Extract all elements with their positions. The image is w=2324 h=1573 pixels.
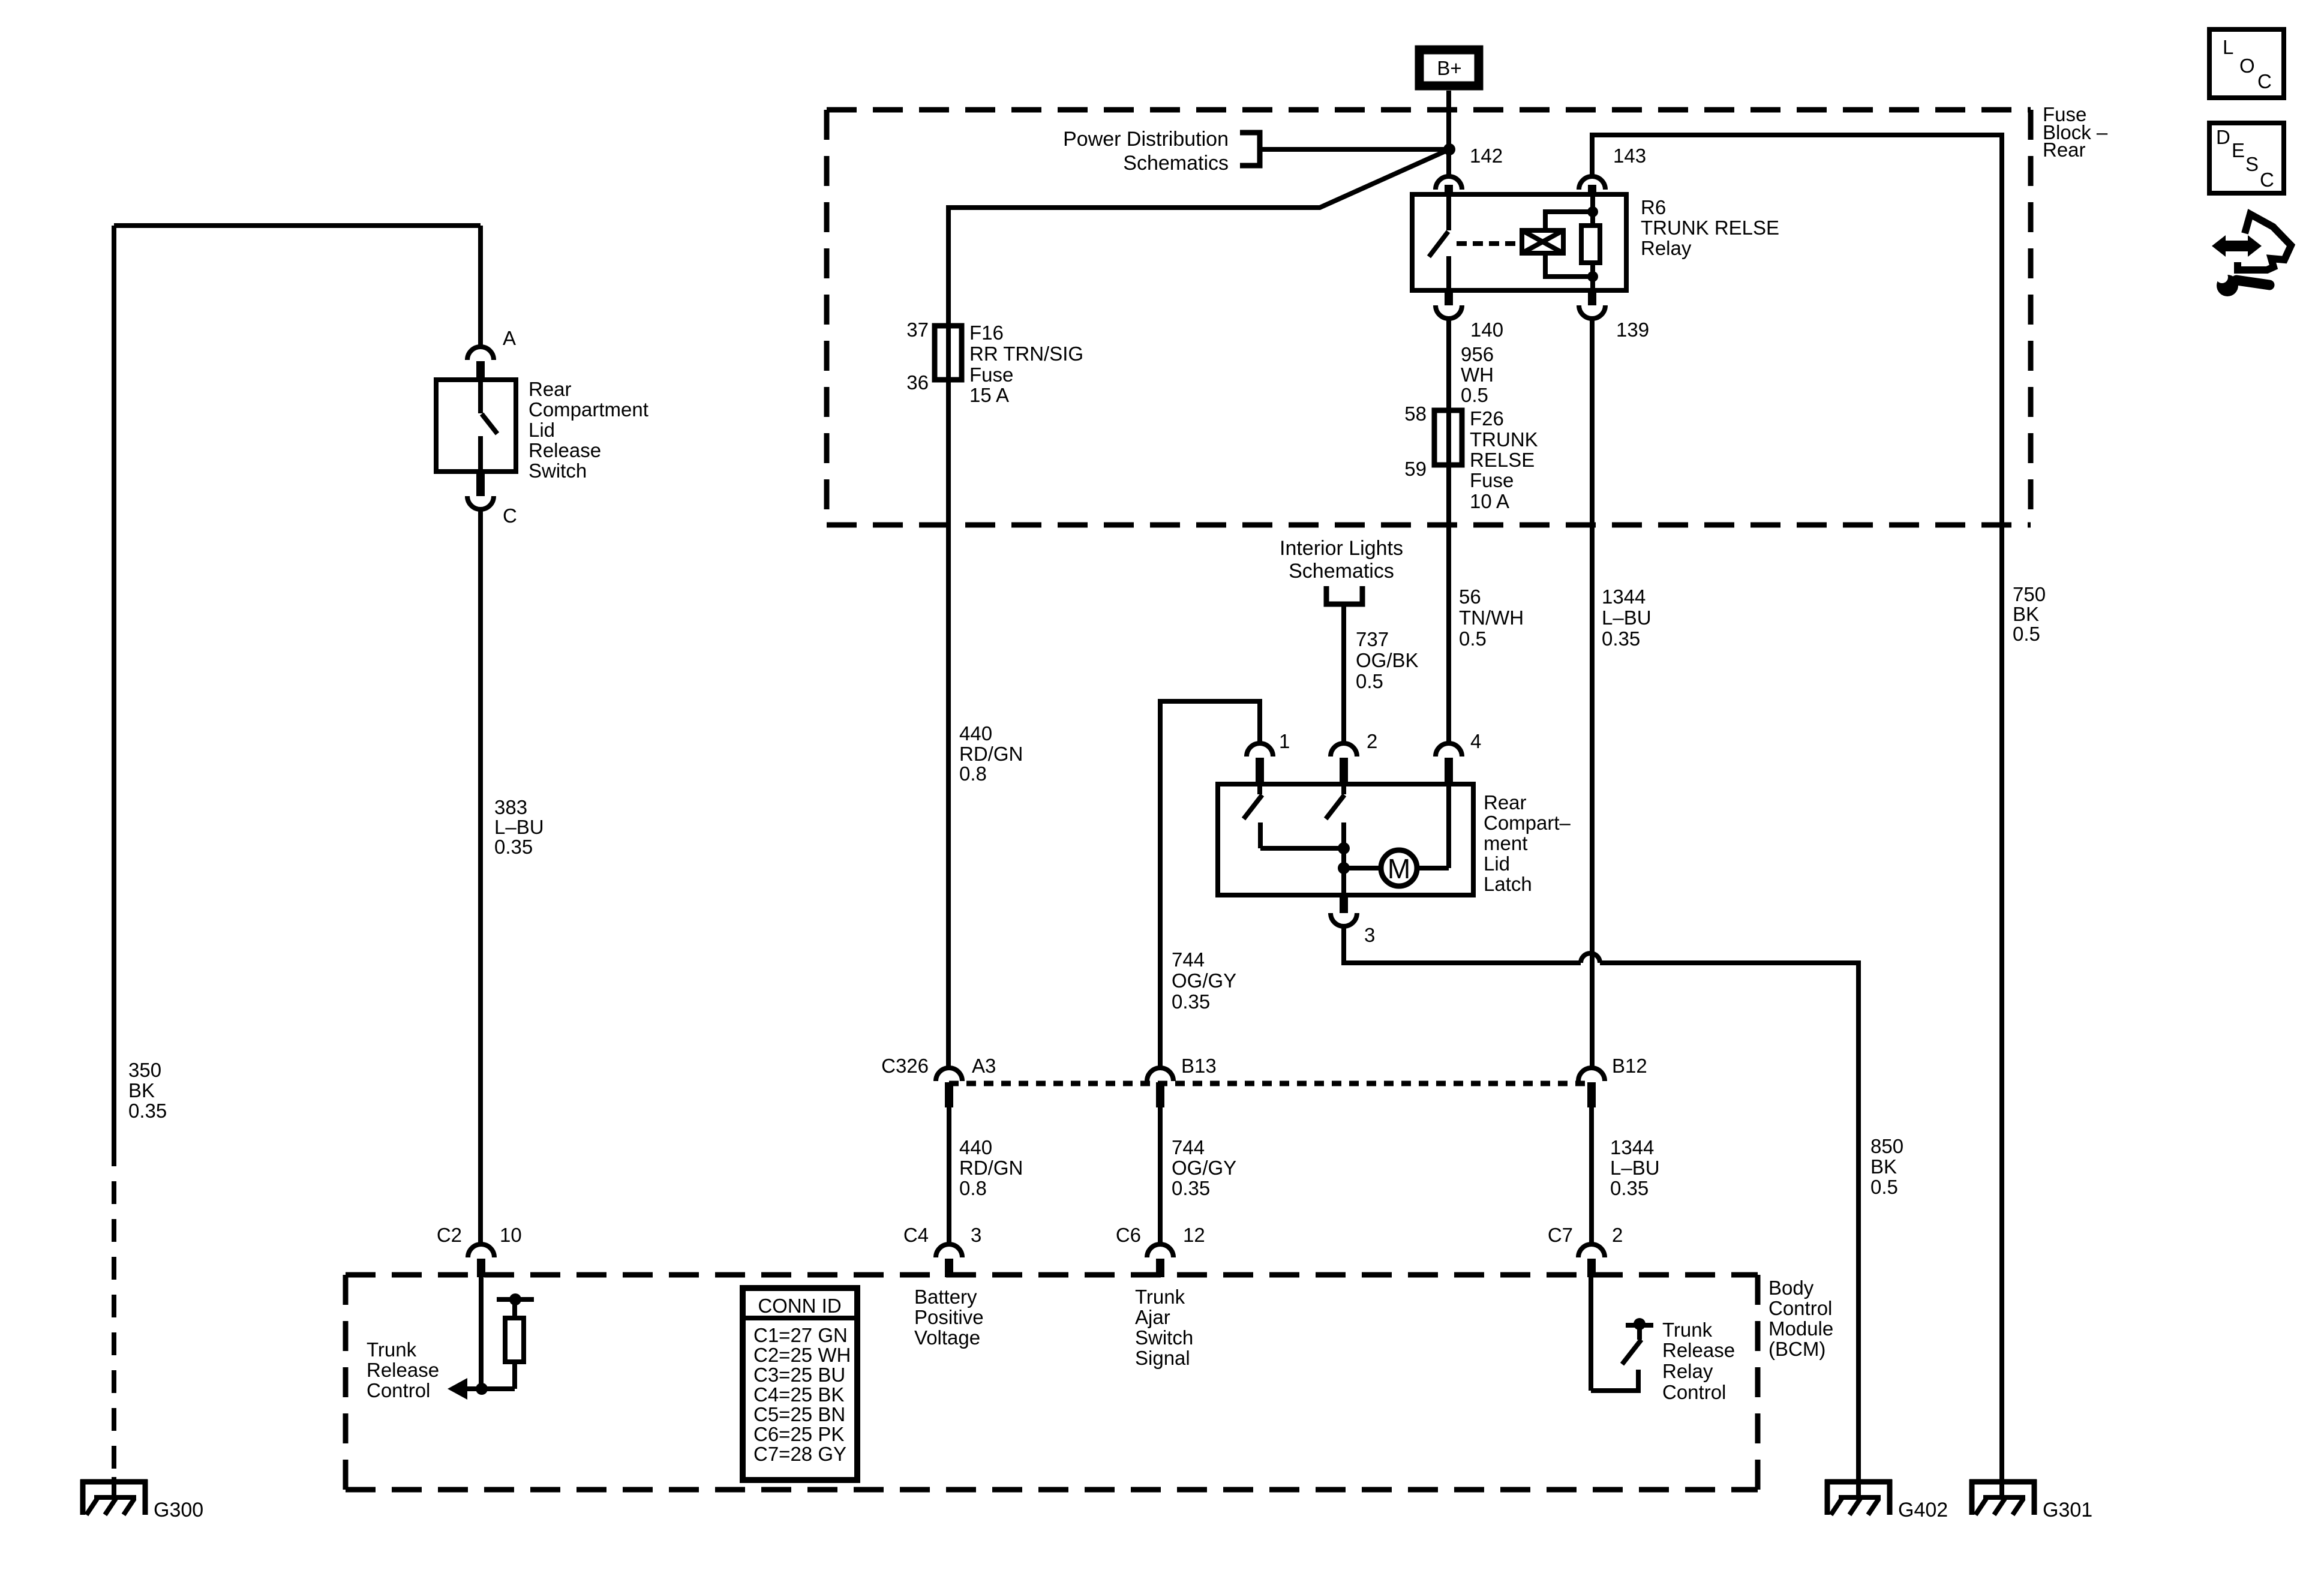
svg-text:2: 2 (1612, 1224, 1623, 1246)
svg-text:350: 350 (128, 1059, 161, 1081)
wire 850 BK continued (1600, 963, 1858, 1479)
wire 350 BK left vertical solid (112, 226, 116, 1143)
svg-text:Compartment: Compartment (529, 398, 648, 421)
svg-text:0.8: 0.8 (959, 1177, 987, 1199)
svg-text:Positive: Positive (914, 1306, 984, 1328)
connector C arc (467, 496, 494, 509)
trunk release relay control pivot bar (1626, 1323, 1653, 1328)
label Fuse Block - Rear (2043, 103, 2108, 161)
conn id table (743, 1288, 857, 1480)
svg-text:Battery: Battery (914, 1286, 977, 1308)
svg-text:56: 56 (1459, 586, 1481, 608)
svg-text:850: 850 (1870, 1135, 1903, 1157)
svg-text:L–BU: L–BU (1602, 607, 1652, 629)
label 737 OG/BK 0.5 (1356, 628, 1419, 692)
bracket for Power Distribution Schematics (1240, 133, 1260, 166)
junction dot coil top (1587, 206, 1598, 217)
bracket for Interior Lights Schematics (1326, 586, 1362, 604)
svg-text:0.35: 0.35 (1172, 990, 1210, 1013)
svg-text:RD/GN: RD/GN (959, 1157, 1023, 1179)
wire 850 BK latch pin 3 to G402 with hop (1344, 926, 1581, 963)
label 744 OG/GY 0.35 lower (1172, 1136, 1236, 1199)
svg-text:1: 1 (1279, 730, 1290, 752)
svg-text:RD/GN: RD/GN (959, 743, 1023, 765)
latch motor lead left (1344, 866, 1381, 870)
svg-text:Interior Lights: Interior Lights (1280, 537, 1403, 560)
svg-text:D: D (2216, 126, 2230, 148)
svg-text:Switch: Switch (1135, 1326, 1193, 1349)
relay coil X (1522, 230, 1563, 253)
svg-text:BK: BK (128, 1079, 155, 1101)
svg-text:142: 142 (1470, 145, 1503, 167)
svg-text:0.35: 0.35 (1610, 1177, 1649, 1199)
svg-text:M: M (1388, 853, 1410, 884)
label 1344 L-BU 0.35 upper (1602, 586, 1652, 650)
svg-text:36: 36 (906, 371, 929, 394)
wire 1344 L-BU B12 to C7 (1589, 1107, 1594, 1244)
connector 142 arc (1436, 176, 1462, 190)
wire C7 into BCM (1589, 1277, 1593, 1391)
svg-text:L–BU: L–BU (1610, 1157, 1660, 1179)
wire hop over 1344 (1581, 953, 1600, 963)
svg-text:ment: ment (1484, 832, 1527, 854)
svg-text:L: L (2223, 36, 2233, 58)
label 440 RD/GN 0.8 upper (959, 722, 1023, 785)
battery feed B+ box (1419, 50, 1479, 86)
svg-text:Voltage: Voltage (914, 1326, 980, 1349)
relay coil top jog (1545, 212, 1593, 230)
label 850 BK 0.5 (1870, 1135, 1903, 1198)
svg-text:B+: B+ (1437, 57, 1461, 79)
svg-text:Control: Control (1662, 1381, 1726, 1403)
svg-text:C6=25 PK: C6=25 PK (753, 1423, 844, 1445)
svg-text:Relay: Relay (1662, 1360, 1713, 1382)
relay switch contact lower (1446, 256, 1451, 290)
relay R6 box (1412, 194, 1626, 290)
svg-text:B13: B13 (1181, 1055, 1217, 1077)
pin stub B13 (1156, 1082, 1164, 1107)
svg-text:C: C (2260, 169, 2274, 191)
wire switch branch down to connector A (478, 226, 483, 348)
svg-text:1344: 1344 (1610, 1136, 1654, 1158)
desc box (2209, 123, 2284, 193)
pin stub 140 (1445, 290, 1453, 305)
svg-text:G300: G300 (154, 1499, 203, 1521)
svg-text:RR TRN/SIG: RR TRN/SIG (969, 343, 1083, 365)
svg-text:440: 440 (959, 1136, 992, 1158)
relay coil branch vertical (1590, 194, 1595, 290)
svg-text:383: 383 (494, 796, 527, 818)
svg-text:C6: C6 (1116, 1224, 1141, 1246)
pin stub latch 1 (1256, 758, 1264, 784)
connector latch pin 4 arc (1436, 743, 1462, 757)
svg-text:15 A: 15 A (969, 384, 1009, 406)
svg-text:CONN ID: CONN ID (758, 1295, 841, 1317)
label 350 BK 0.35 (128, 1059, 167, 1122)
svg-text:BK: BK (2013, 603, 2039, 625)
svg-text:Compart–: Compart– (1484, 812, 1571, 834)
wire bracket to node 142 (1260, 147, 1449, 152)
svg-text:Trunk: Trunk (367, 1338, 417, 1361)
pin stub C4 (945, 1259, 953, 1277)
svg-text:R6: R6 (1641, 196, 1666, 218)
svg-text:TRUNK: TRUNK (1470, 428, 1538, 451)
svg-text:0.8: 0.8 (959, 763, 987, 785)
svg-text:C: C (503, 505, 517, 527)
svg-text:C5=25 BN: C5=25 BN (753, 1403, 845, 1425)
svg-text:0.5: 0.5 (1461, 384, 1488, 406)
svg-text:Release: Release (367, 1359, 439, 1381)
connector row C326 dotted line (949, 1081, 1592, 1086)
resistor lead lower (512, 1362, 517, 1389)
svg-text:RELSE: RELSE (1470, 449, 1535, 471)
connector C7 arc (1578, 1244, 1605, 1257)
svg-text:10: 10 (500, 1224, 522, 1246)
trunk release relay control dot (1634, 1318, 1646, 1330)
trunk release relay control blade (1622, 1340, 1641, 1364)
relay coil bottom jog (1545, 253, 1593, 277)
wire 1344 L-BU relay pin 139 down to B12 (1590, 319, 1595, 1068)
svg-text:Control: Control (367, 1379, 430, 1401)
svg-text:C2: C2 (437, 1224, 462, 1246)
svg-text:0.35: 0.35 (128, 1100, 167, 1122)
junction dot resistor top (509, 1293, 521, 1305)
svg-text:139: 139 (1616, 319, 1649, 341)
svg-text:10 A: 10 A (1470, 490, 1509, 512)
svg-text:F16: F16 (969, 322, 1004, 344)
svg-text:TN/WH: TN/WH (1459, 607, 1524, 629)
svg-text:Lid: Lid (529, 419, 555, 441)
label Trunk Release Control (367, 1338, 439, 1401)
wire arrow line to resistor branch (465, 1386, 515, 1391)
svg-text:1344: 1344 (1602, 586, 1646, 608)
latch switch 1 contact (1258, 822, 1263, 848)
svg-text:B12: B12 (1612, 1055, 1647, 1077)
wire top left branch horizontal (114, 223, 481, 228)
trunk release relay control stub (1637, 1328, 1642, 1340)
latch switch 2 contact down to pin 3 (1341, 822, 1346, 895)
ground G402 (1825, 1479, 1892, 1515)
svg-text:Power Distribution: Power Distribution (1063, 128, 1229, 151)
svg-text:744: 744 (1172, 1136, 1205, 1158)
relay coil box (1522, 230, 1563, 253)
svg-text:Release: Release (529, 439, 601, 461)
svg-text:OG/GY: OG/GY (1172, 969, 1236, 992)
relay resistor element (1581, 226, 1600, 263)
wire 143 to right side down to G301 (1592, 135, 2002, 1479)
label Trunk Release Relay Control (1662, 1319, 1735, 1403)
svg-text:G301: G301 (2043, 1499, 2092, 1521)
svg-text:O: O (2239, 55, 2255, 77)
svg-text:Control: Control (1768, 1297, 1832, 1319)
car rear silhouette (2238, 214, 2291, 270)
fuse F16 RR TRN/SIG 15A (935, 326, 962, 380)
svg-text:143: 143 (1613, 145, 1646, 167)
rear compartment lid latch box (1218, 784, 1473, 895)
svg-text:0.5: 0.5 (2013, 623, 2040, 645)
pin stub 142 (1445, 185, 1453, 194)
label 750 BK 0.5 (2013, 583, 2046, 645)
wire C2 into BCM (479, 1277, 484, 1389)
junction dot trunk release control (476, 1383, 488, 1395)
label Battery Positive Voltage (914, 1286, 984, 1349)
wire 440 RD/GN A3 to C4 (947, 1107, 951, 1244)
svg-text:Rear: Rear (1484, 791, 1527, 813)
release switch stub (478, 380, 483, 413)
label 956 WH 0.5 (1461, 343, 1494, 406)
svg-text:37: 37 (906, 319, 929, 341)
svg-text:Fuse: Fuse (1470, 469, 1514, 491)
svg-text:0.5: 0.5 (1356, 670, 1383, 692)
latch wire switch1 to center (1260, 846, 1344, 851)
svg-text:0.5: 0.5 (1870, 1176, 1898, 1198)
svg-text:S: S (2245, 153, 2259, 175)
pin stub C7 (1587, 1259, 1596, 1277)
rear compartment lid release switch box (436, 380, 516, 472)
svg-text:TRUNK RELSE: TRUNK RELSE (1641, 217, 1779, 239)
svg-text:Trunk: Trunk (1662, 1319, 1713, 1341)
connector B12 arc (1578, 1068, 1605, 1081)
pin stub latch 2 (1340, 758, 1348, 784)
svg-text:Release: Release (1662, 1339, 1735, 1361)
svg-text:440: 440 (959, 722, 992, 745)
svg-text:0.35: 0.35 (494, 836, 533, 858)
svg-text:A: A (503, 327, 516, 349)
pin stub A3 (945, 1082, 953, 1107)
svg-text:L–BU: L–BU (494, 816, 544, 838)
svg-text:F26: F26 (1470, 407, 1504, 430)
svg-text:C7=28 GY: C7=28 GY (753, 1443, 846, 1465)
svg-text:Schematics: Schematics (1123, 152, 1229, 175)
svg-text:956: 956 (1461, 343, 1494, 365)
release switch contact (478, 436, 483, 472)
svg-text:C7: C7 (1548, 1224, 1573, 1246)
pin stub 139 (1588, 290, 1596, 305)
wire 956 WH relay to F26 (1446, 319, 1451, 465)
wire 56 TN/WH F26 to latch pin 4 (1446, 465, 1451, 743)
fuse block dashed box (Fuse Block - Rear) (827, 110, 2031, 525)
svg-text:A3: A3 (972, 1055, 996, 1077)
svg-text:4: 4 (1470, 730, 1481, 752)
label R6 TRUNK RELSE Relay (1641, 196, 1779, 259)
svg-text:140: 140 (1470, 319, 1503, 341)
connector A3 arc (936, 1068, 962, 1081)
pin stub C2 (477, 1259, 485, 1277)
pin stub 143 (1588, 185, 1596, 194)
connector C4 arc (936, 1244, 962, 1257)
svg-text:0.5: 0.5 (1459, 628, 1487, 650)
connector latch pin 1 arc (1247, 743, 1273, 757)
fuse F26 TRUNK RELSE 10A (1434, 410, 1462, 465)
svg-text:750: 750 (2013, 583, 2046, 605)
svg-text:E: E (2232, 139, 2245, 161)
connector 140 arc (1436, 305, 1462, 319)
label F16 RR TRN/SIG Fuse 15 A (969, 322, 1083, 406)
svg-text:59: 59 (1404, 458, 1427, 480)
connector C6 arc (1147, 1244, 1173, 1257)
junction dot latch upper (1338, 842, 1350, 854)
svg-text:Signal: Signal (1135, 1347, 1190, 1369)
svg-text:(BCM): (BCM) (1768, 1338, 1825, 1360)
junction dot coil bottom (1587, 271, 1598, 282)
release switch blade (482, 414, 497, 434)
svg-text:0.35: 0.35 (1602, 628, 1640, 650)
trunk release control arrow (448, 1378, 467, 1400)
relay switch contact upper (1446, 194, 1451, 230)
car direction icon double arrow (2212, 235, 2262, 257)
svg-text:58: 58 (1404, 403, 1427, 425)
svg-text:3: 3 (1364, 924, 1375, 946)
junction dot latch lower (1338, 862, 1350, 874)
svg-text:Body: Body (1768, 1277, 1814, 1299)
svg-text:WH: WH (1461, 364, 1494, 386)
connector 139 arc (1579, 305, 1605, 319)
svg-text:C: C (2257, 70, 2272, 92)
svg-text:C1=27 GN: C1=27 GN (753, 1324, 848, 1346)
svg-text:Relay: Relay (1641, 237, 1692, 259)
wire 383 L-BU switch to C2 (478, 509, 483, 1244)
svg-text:BK: BK (1870, 1155, 1897, 1178)
connector B13 arc (1147, 1068, 1173, 1081)
svg-text:C4: C4 (903, 1224, 929, 1246)
connector latch pin 3 arc (1331, 913, 1357, 926)
svg-text:OG/BK: OG/BK (1356, 649, 1419, 671)
latch motor M (1381, 850, 1417, 886)
latch motor lead right (1417, 866, 1449, 870)
svg-text:Module: Module (1768, 1317, 1833, 1340)
pin stub latch 4 (1445, 758, 1453, 784)
pin stub C6 (1156, 1259, 1164, 1277)
label 440 RD/GN 0.8 lower (959, 1136, 1023, 1199)
resistor lead upper (512, 1299, 517, 1318)
wire 744 loop latch pin 1 up and left to B13 column (1160, 701, 1260, 1068)
label Interior Lights Schematics (1280, 537, 1403, 583)
svg-text:C3=25 BU: C3=25 BU (753, 1364, 845, 1386)
pin stub C (476, 472, 485, 496)
wire B+ to node 142 (1446, 91, 1451, 176)
wire 744 OG/GY B13 to C6 (1158, 1107, 1163, 1244)
svg-text:C2=25 WH: C2=25 WH (753, 1344, 851, 1366)
svg-text:Schematics: Schematics (1289, 560, 1394, 583)
pin stub A (476, 361, 485, 380)
svg-text:2: 2 (1367, 730, 1377, 752)
latch motor branch vertical to pin 4 (1446, 784, 1451, 868)
svg-text:Trunk: Trunk (1135, 1286, 1185, 1308)
wire 737 OG/BK bracket to latch pin 2 (1341, 607, 1346, 743)
svg-text:3: 3 (971, 1224, 981, 1246)
svg-text:OG/GY: OG/GY (1172, 1157, 1236, 1179)
ground G301 (1969, 1479, 2037, 1515)
latch switch 2 stub (1341, 784, 1346, 794)
latch switch 1 stub (1257, 784, 1262, 794)
svg-text:Rear: Rear (2043, 139, 2086, 161)
wire BCM corner to relay control contact (1591, 1370, 1638, 1391)
label Rear Compartment Lid Latch (1484, 791, 1571, 895)
label 383 L-BU 0.35 (494, 796, 544, 858)
body control module dashed box (346, 1275, 1758, 1490)
svg-text:Fuse: Fuse (969, 364, 1013, 386)
svg-text:Switch: Switch (529, 460, 587, 482)
relay switch blade (1429, 232, 1448, 257)
ground G300 (80, 1477, 148, 1515)
label Body Control Module (BCM) (1768, 1277, 1833, 1360)
label F26 TRUNK RELSE Fuse 10 A (1470, 407, 1538, 512)
latch switch 1 blade (1244, 795, 1262, 819)
connector C2 arc (468, 1244, 494, 1257)
svg-text:C326: C326 (881, 1055, 929, 1077)
node junction dot at 142 (1443, 143, 1455, 155)
label Trunk Ajar Switch Signal (1135, 1286, 1193, 1369)
connector latch pin 2 arc (1331, 743, 1357, 757)
wrench icon (2216, 271, 2269, 296)
label 744 OG/GY 0.35 upper (1172, 948, 1236, 1013)
pin stub B12 (1587, 1082, 1596, 1107)
wire 350 BK dashed to G300 (112, 1143, 116, 1477)
svg-text:737: 737 (1356, 628, 1389, 650)
connector 143 arc (1579, 176, 1605, 190)
label Power Distribution Schematics (1063, 128, 1229, 175)
svg-text:Ajar: Ajar (1135, 1306, 1170, 1328)
label 1344 L-BU 0.35 lower (1610, 1136, 1660, 1199)
label 56 TN/WH 0.5 (1459, 586, 1524, 650)
svg-text:Latch: Latch (1484, 873, 1532, 895)
svg-text:G402: G402 (1898, 1499, 1948, 1521)
svg-text:744: 744 (1172, 948, 1205, 971)
svg-text:12: 12 (1183, 1224, 1205, 1246)
wire diagonal node to F16 branch (948, 149, 1449, 1068)
svg-text:Lid: Lid (1484, 852, 1510, 875)
loc box (2209, 29, 2284, 98)
label Rear Compartment Lid Release Switch (529, 378, 648, 482)
pin stub latch 3 (1340, 895, 1348, 913)
resistor top crossbar (497, 1297, 534, 1302)
latch switch 2 blade (1326, 795, 1344, 819)
relay actuating dashed link (1457, 241, 1520, 246)
svg-text:0.35: 0.35 (1172, 1177, 1210, 1199)
svg-text:C4=25 BK: C4=25 BK (753, 1383, 844, 1406)
trunk release control resistor (505, 1318, 524, 1362)
connector A arc (467, 347, 494, 360)
svg-text:Rear: Rear (529, 378, 572, 400)
